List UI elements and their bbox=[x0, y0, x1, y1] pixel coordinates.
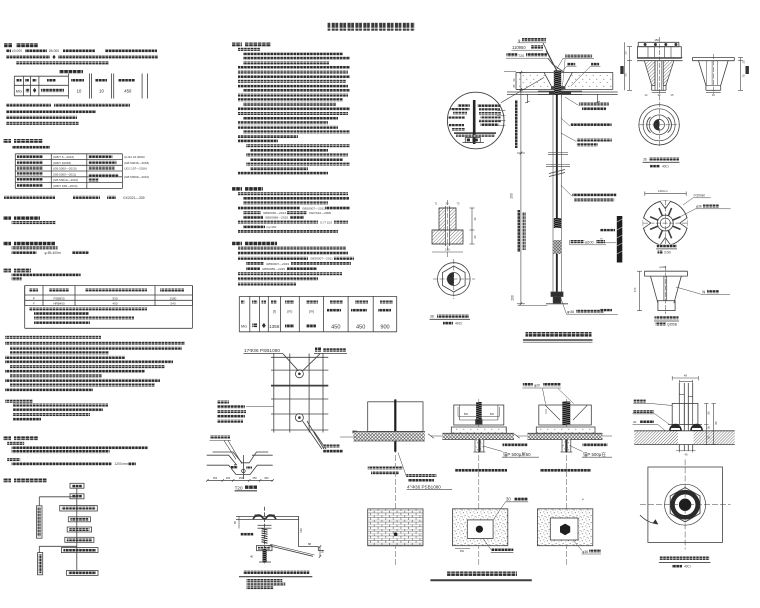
svg-text:φ³36: φ³36 bbox=[567, 310, 574, 314]
svg-text:my=20t: my=20t bbox=[266, 225, 276, 229]
svg-text:85.000: 85.000 bbox=[49, 49, 59, 53]
svg-text:25: 25 bbox=[624, 51, 628, 54]
svg-text:25: 25 bbox=[742, 60, 746, 63]
svg-text:G./T 103: G./T 103 bbox=[320, 220, 332, 224]
svg-text:30: 30 bbox=[506, 497, 511, 502]
svg-text:1200 mm: 1200 mm bbox=[115, 462, 129, 466]
svg-text:200: 200 bbox=[511, 295, 515, 301]
svg-text:170: 170 bbox=[633, 287, 637, 292]
svg-text:35: 35 bbox=[707, 426, 711, 429]
svg-text:(GB 50010—2010): (GB 50010—2010) bbox=[53, 178, 78, 182]
svg-text:88: 88 bbox=[308, 542, 312, 546]
svg-text:40: 40 bbox=[473, 217, 477, 221]
svg-text:50: 50 bbox=[624, 73, 628, 76]
svg-text:焊: 焊 bbox=[702, 289, 705, 294]
svg-text:HRB400: HRB400 bbox=[53, 302, 65, 306]
svg-text:55: 55 bbox=[707, 411, 711, 414]
svg-text:450: 450 bbox=[331, 325, 340, 331]
svg-text:1080: 1080 bbox=[170, 296, 177, 300]
svg-text:30: 30 bbox=[707, 436, 711, 439]
svg-text:P: P bbox=[33, 296, 35, 300]
svg-text:1358: 1358 bbox=[269, 324, 280, 329]
svg-text:(GB 5000—2010): (GB 5000—2010) bbox=[53, 167, 77, 171]
svg-text:40Cr: 40Cr bbox=[662, 165, 670, 169]
svg-text:φ36: φ36 bbox=[696, 205, 702, 209]
svg-text:40Cr: 40Cr bbox=[455, 322, 463, 326]
svg-text:40: 40 bbox=[473, 235, 477, 239]
svg-text:140: 140 bbox=[299, 528, 303, 533]
svg-text:400: 400 bbox=[112, 302, 117, 306]
svg-text:900: 900 bbox=[380, 325, 389, 331]
svg-text:(m): (m) bbox=[309, 310, 314, 314]
svg-text:(t): (t) bbox=[273, 310, 276, 314]
svg-text:(CJ12 22.3000): (CJ12 22.3000) bbox=[124, 155, 145, 159]
svg-text:250: 250 bbox=[226, 476, 231, 480]
svg-text:GB50007—2011: GB50007—2011 bbox=[310, 257, 333, 261]
svg-text:φ36: φ36 bbox=[582, 550, 588, 554]
svg-text:80: 80 bbox=[233, 521, 237, 525]
svg-text:40: 40 bbox=[250, 555, 254, 559]
svg-text:4°Φ36 PSB1080: 4°Φ36 PSB1080 bbox=[407, 484, 441, 489]
svg-text:(GB/T 6—2016): (GB/T 6—2016) bbox=[53, 155, 74, 159]
svg-text:10: 10 bbox=[99, 89, 104, 94]
svg-text:(GB 50046—2018): (GB 50046—2018) bbox=[124, 161, 149, 165]
svg-text:GB50086—2015: GB50086—2015 bbox=[262, 267, 285, 271]
svg-text:48: 48 bbox=[684, 374, 687, 378]
svg-text:T20: T20 bbox=[518, 54, 524, 58]
svg-text:GB50007—2019: GB50007—2019 bbox=[266, 262, 289, 266]
svg-text:75: 75 bbox=[742, 74, 746, 77]
svg-text:110950: 110950 bbox=[512, 45, 526, 50]
svg-text:250: 250 bbox=[239, 476, 244, 480]
svg-text:GB50086—2015: GB50086—2015 bbox=[265, 216, 288, 220]
svg-text:200: 200 bbox=[510, 193, 514, 199]
svg-text:540: 540 bbox=[170, 302, 175, 306]
svg-text:500: 500 bbox=[464, 413, 469, 416]
svg-text:GB50330—2013: GB50330—2013 bbox=[263, 211, 286, 215]
svg-text:F: F bbox=[33, 302, 35, 306]
svg-text:(m): (m) bbox=[287, 310, 292, 314]
svg-text:250: 250 bbox=[252, 476, 257, 480]
svg-text:±0.000: ±0.000 bbox=[12, 49, 22, 53]
svg-text:(JGJ 107—2016): (JGJ 107—2016) bbox=[124, 167, 147, 171]
svg-text:(GB 50099—2010): (GB 50099—2010) bbox=[124, 175, 149, 179]
svg-text:350: 350 bbox=[213, 476, 218, 480]
svg-text:φ 85.400m: φ 85.400m bbox=[45, 251, 62, 255]
svg-text:MG: MG bbox=[16, 90, 22, 94]
svg-text:150: 150 bbox=[654, 38, 659, 42]
svg-text:65: 65 bbox=[714, 421, 718, 424]
svg-text:PSB830: PSB830 bbox=[53, 296, 64, 300]
svg-text:(GB/T 228—2010): (GB/T 228—2010) bbox=[53, 184, 77, 188]
svg-text:36: 36 bbox=[430, 315, 434, 319]
svg-text:36: 36 bbox=[643, 158, 647, 162]
svg-text:140mm: 140mm bbox=[658, 189, 668, 193]
svg-text:GB50007—2011: GB50007—2011 bbox=[302, 206, 325, 210]
svg-text:50: 50 bbox=[321, 550, 325, 554]
svg-text:⌀200: ⌀200 bbox=[585, 240, 594, 244]
svg-text:Q355B: Q355B bbox=[667, 323, 677, 327]
svg-text:930: 930 bbox=[112, 296, 117, 300]
svg-text:500: 500 bbox=[490, 413, 495, 416]
svg-text:(GB 5000—2011): (GB 5000—2011) bbox=[53, 172, 76, 176]
svg-text:350: 350 bbox=[460, 550, 465, 553]
svg-text:10: 10 bbox=[77, 89, 82, 94]
svg-text:t=20mm: t=20mm bbox=[694, 194, 706, 198]
svg-text:MG: MG bbox=[241, 325, 247, 329]
svg-text:40: 40 bbox=[685, 453, 688, 457]
svg-text:T20: T20 bbox=[235, 486, 243, 491]
svg-text:20: 20 bbox=[633, 420, 637, 424]
svg-text:3.0m: 3.0m bbox=[664, 251, 671, 255]
svg-text:(GB/T 20065): (GB/T 20065) bbox=[53, 161, 71, 165]
svg-text:450: 450 bbox=[124, 89, 132, 94]
svg-text:450: 450 bbox=[356, 325, 365, 331]
svg-text:φ20: φ20 bbox=[534, 384, 540, 388]
svg-text:40Cr: 40Cr bbox=[684, 565, 692, 569]
svg-text:350: 350 bbox=[264, 476, 269, 480]
svg-text:CECS22—2005 ,: CECS22—2005 , bbox=[309, 211, 333, 215]
svg-text:GX2021—339: GX2021—339 bbox=[123, 196, 145, 200]
